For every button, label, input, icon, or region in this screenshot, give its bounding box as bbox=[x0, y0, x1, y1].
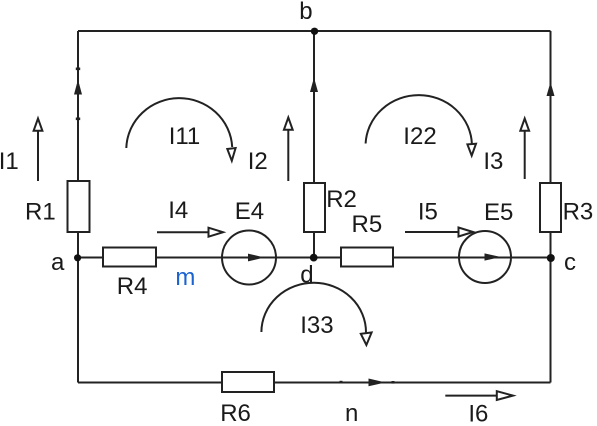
svg-text:R6: R6 bbox=[220, 400, 251, 426]
svg-text:c: c bbox=[564, 249, 576, 276]
svg-text:R5: R5 bbox=[352, 211, 383, 238]
svg-text:R1: R1 bbox=[25, 199, 56, 226]
svg-text:I3: I3 bbox=[483, 148, 503, 175]
svg-text:I11: I11 bbox=[169, 123, 201, 150]
svg-text:n: n bbox=[345, 400, 358, 426]
svg-text:I4: I4 bbox=[168, 197, 188, 224]
svg-text:d: d bbox=[300, 262, 313, 289]
svg-text:E4: E4 bbox=[235, 198, 264, 225]
svg-text:m: m bbox=[175, 264, 195, 291]
svg-text:I33: I33 bbox=[300, 312, 333, 339]
svg-text:R2: R2 bbox=[326, 186, 357, 213]
svg-text:b: b bbox=[299, 0, 312, 25]
svg-text:I22: I22 bbox=[403, 123, 436, 150]
svg-text:I1: I1 bbox=[0, 148, 19, 175]
svg-text:R3: R3 bbox=[563, 199, 594, 226]
svg-text:a: a bbox=[51, 249, 65, 276]
svg-text:I6: I6 bbox=[468, 401, 488, 426]
svg-text:E5: E5 bbox=[484, 199, 513, 226]
svg-text:I5: I5 bbox=[418, 199, 438, 226]
svg-text:R4: R4 bbox=[117, 273, 148, 300]
svg-text:I2: I2 bbox=[248, 148, 268, 175]
